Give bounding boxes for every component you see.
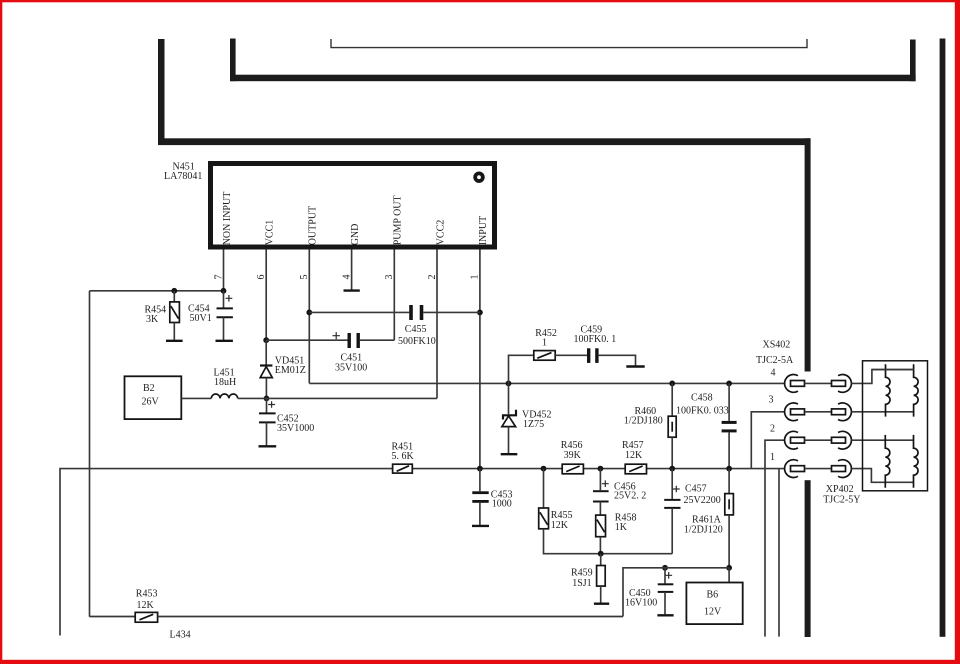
svg-text:16V100: 16V100 [625,598,657,609]
capacitor C451 [348,333,351,348]
svg-text:12K: 12K [625,450,643,461]
capacitor C455 [409,305,413,320]
wire C459 to stub terminal [599,355,636,365]
wire R460 vertical top [671,383,673,416]
svg-text:VCC2: VCC2 [435,220,446,246]
wire row1 drop line [778,469,780,637]
svg-text:5. 6K: 5. 6K [392,451,415,462]
zener diode VD452 [503,410,516,420]
svg-text:12K: 12K [551,520,569,531]
svg-text:12K: 12K [137,600,155,611]
node junction pin7 / C454 [221,288,227,294]
svg-text:TJC2-5A: TJC2-5A [756,355,794,366]
wire R455 bottom to rail [544,529,673,554]
node junction pin6 / C451 wire [263,337,269,343]
svg-text:100FK0. 033: 100FK0. 033 [676,406,729,417]
svg-text:1K: 1K [615,522,628,533]
wire C451 right segment to pin3 [360,339,394,341]
svg-text:3: 3 [384,275,395,280]
capacitor C457 plus sign [673,486,680,493]
capacitor C450 [664,568,666,584]
svg-text:500FK10: 500FK10 [398,336,436,347]
svg-text:7: 7 [213,275,224,280]
svg-text:18uH: 18uH [214,377,236,388]
wire row3 mid [805,411,832,413]
svg-text:EM01Z: EM01Z [275,365,306,376]
wire row1 to yoke bottom [851,469,913,483]
wire 12V rail [623,568,729,617]
resistor R451 [393,464,413,473]
node junction C458 top [726,381,732,387]
wire row2 drop line [765,440,785,636]
wire main output net pin5 to connector row4 [309,382,784,384]
thin cropped box at top [331,39,807,48]
node junction R461A / B6 [726,565,732,571]
inductor L451 [211,394,237,398]
thick top U-shape left leg [230,39,236,82]
wire L451 to node [238,397,267,399]
thick top U-shape horizontal [230,75,916,82]
capacitor C450 plus sign [665,572,672,579]
svg-text:2: 2 [427,275,438,280]
capacitor C457 [671,469,673,499]
resistor R458 [596,515,606,537]
svg-text:100FK0. 1: 100FK0. 1 [574,334,617,345]
connector XP402 row 3 plug [832,409,846,415]
ground bar C453 [472,525,489,527]
capacitor C452 [266,398,268,412]
wire row2 mid [805,439,832,441]
node junction C456 top [598,466,604,472]
deflection yoke box [863,361,928,491]
wire pin7 horizontal to left bus [90,290,224,292]
thick board outline: left vertical bus [158,39,165,145]
svg-text:25V2. 2: 25V2. 2 [614,491,646,502]
wire C456 to R458 [599,502,601,516]
wire row4 to yoke top [851,370,913,384]
svg-text:C458: C458 [691,392,713,403]
yoke coil bottom-right [914,435,919,488]
wire row2 to yoke link [851,439,913,441]
svg-text:B2: B2 [143,383,155,394]
wire pin4 ground stub [351,250,353,290]
svg-text:XP402: XP402 [826,484,854,495]
wire R454 to rail [173,291,175,302]
svg-text:1/2DJ180: 1/2DJ180 [624,416,663,427]
svg-text:25V2200: 25V2200 [684,495,721,506]
wire pin2 vertical [436,250,438,399]
thick top U-shape right leg [910,40,916,82]
node junction L451 / VD451 / C452 [264,396,270,402]
node junction R455 top [541,466,547,472]
ground bar pin4 [344,289,360,291]
svg-text:1Z75: 1Z75 [523,419,544,430]
svg-text:C457: C457 [685,483,707,494]
ground bar R454 [166,340,183,342]
resistor R456 [562,464,583,474]
node junction C458 bottom / R461A [726,466,732,472]
svg-text:1: 1 [470,275,481,280]
svg-text:1/2DJ120: 1/2DJ120 [684,525,723,536]
wire yoke top link [872,369,914,371]
node junction R458 / R459 [598,551,604,557]
svg-text:12V: 12V [704,607,722,618]
resistor R454 [170,302,180,323]
svg-text:50V1: 50V1 [190,313,212,324]
resistor R457 [625,464,646,474]
node junction pin1 / C453 / bus [477,466,483,472]
wire R459 top [600,554,602,566]
yoke coil top-right [914,364,919,416]
wire C458 vertical top [728,383,730,421]
wire pin6 node to diode [265,340,267,364]
svg-text:GND: GND [350,224,361,246]
wire pin3 vertical [393,250,395,341]
wire R458 bottom [599,537,601,554]
resistor R455 [539,508,549,529]
connector XS402 row 3 socket [785,403,798,421]
wire C455 left segment [309,311,409,313]
connector XP402 row 4 plug [832,381,846,387]
wire node to pin2 corner [267,397,438,399]
wire pin5 vertical [308,250,310,384]
wire lower feedback bus [60,469,785,636]
wire R461A top [728,469,730,494]
capacitor C451 plus sign [333,332,340,339]
svg-text:5: 5 [299,275,310,280]
thick board outline: right vertical bus upper segment [805,138,811,371]
box B6 12V supply [686,583,742,625]
svg-text:PUMP OUT: PUMP OUT [393,195,404,245]
connector XS402 row 4 socket [785,375,798,393]
wire row1 mid [805,468,832,470]
wire R452 branch riser [509,355,534,383]
resistor R461A fusible [725,494,734,515]
svg-text:6: 6 [256,275,267,280]
wire row3 to yoke link [851,411,913,413]
capacitor C454 [223,291,225,308]
node junction pin5 / C455 wire [306,310,312,316]
svg-text:1: 1 [542,337,547,348]
thick board outline: right vertical bus lower segment [805,480,811,637]
svg-text:C455: C455 [405,324,427,335]
svg-text:3: 3 [769,395,774,406]
svg-text:26V: 26V [142,397,160,408]
wire R453 bottom rail right segment [158,616,623,618]
wire pin6 vertical to node [265,250,267,341]
capacitor C454 plus sign [226,295,233,302]
thick board outline: upper horizontal bus [158,138,811,145]
svg-text:VCC1: VCC1 [265,220,276,246]
ground bar C450 [657,614,673,616]
capacitor C453 [479,469,481,492]
wire C451 left segment from pin6 node [266,339,347,341]
svg-text:1SJ1: 1SJ1 [572,578,591,589]
capacitor C456 [599,469,601,491]
resistor R459 [597,566,606,587]
op-amp IC N451 LA78041 body [211,164,495,248]
wire row4 mid [805,382,832,384]
svg-text:1000: 1000 [492,499,512,510]
wire R453 bottom rail left segment [90,616,136,618]
terminal bar after C459 [626,365,644,367]
svg-text:2: 2 [770,424,775,435]
svg-text:OUTPUT: OUTPUT [308,206,319,245]
capacitor C459 [587,348,590,363]
yoke coil top-left [886,364,891,416]
connector XS402 row 2 socket [785,431,798,449]
yoke coil bottom-left [885,435,890,488]
wire C455 right segment [423,311,480,313]
connector XS402 row 1 socket [785,460,798,478]
thick far-right vertical line [940,39,946,637]
capacitor C456 plus sign [602,480,609,487]
node junction R452/VD452 branch [506,381,512,387]
ground bar VD452 [501,453,518,455]
svg-text:35V1000: 35V1000 [277,423,314,434]
svg-text:3K: 3K [146,314,159,325]
box B2 26V supply [125,376,182,419]
svg-text:XS402: XS402 [763,340,791,351]
wire row3 branch from bus [751,412,784,469]
ground bar C454 [216,340,233,342]
svg-text:39K: 39K [564,450,582,461]
svg-text:4: 4 [771,368,776,379]
wire R460 vertical bottom [671,437,673,468]
capacitor C452 plus sign [268,401,275,408]
wire pin1 vertical [479,250,481,469]
wire R459 bottom [600,586,602,603]
svg-text:B6: B6 [707,590,719,601]
node junction R460 top [669,381,675,387]
svg-text:4: 4 [341,275,352,280]
node junction R454 top [171,288,177,294]
wire pin7 vertical [223,250,225,291]
svg-text:LA78041: LA78041 [164,171,202,182]
svg-text:R459: R459 [571,567,593,578]
wire VD452 branch down [508,383,510,414]
svg-text:1: 1 [770,452,775,463]
wire R452 to C459 [555,354,587,356]
svg-text:INPUT: INPUT [478,216,489,245]
svg-text:L434: L434 [170,630,191,641]
diode VD451 [260,364,272,366]
resistor R460 fusible [668,416,676,437]
svg-text:R453: R453 [136,588,158,599]
wire B6 stub [728,568,730,583]
IC pin-1 marker dot [473,172,484,183]
connector XP402 row 1 plug [832,466,846,472]
wire R454 bottom [173,323,175,341]
svg-text:35V100: 35V100 [335,362,367,373]
node junction R460 bottom [669,466,675,472]
wire R455 branch [543,469,545,508]
node junction C450 top [662,565,668,571]
resistor R452 [534,351,555,361]
wire B2 to L451 [181,397,211,399]
connector XP402 row 2 plug [832,437,846,443]
wire C458 vertical bottom [728,432,730,468]
wire R461A bottom [728,515,730,568]
resistor R453 [135,612,157,622]
wire left vertical bus down [89,291,91,617]
svg-text:TJC2-5Y: TJC2-5Y [823,495,860,506]
ground bar C452 [259,445,277,447]
svg-text:NON INPUT: NON INPUT [222,192,233,246]
node junction pin1 / C455 wire [477,310,483,316]
capacitor C458 [722,421,737,424]
ground bar R459 [594,603,609,605]
